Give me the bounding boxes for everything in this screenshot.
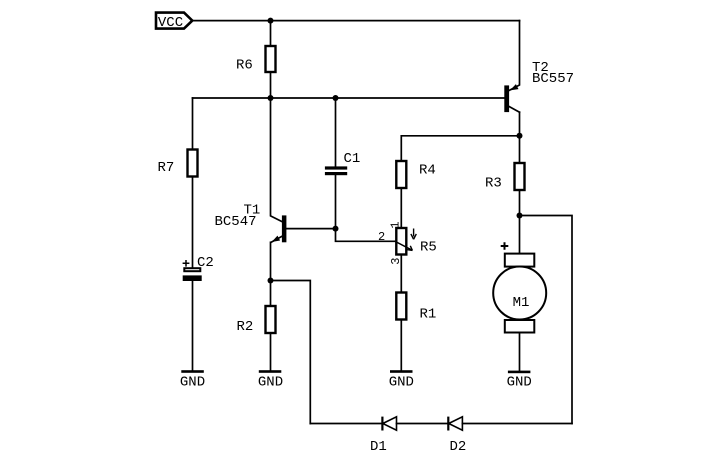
svg-text:VCC: VCC xyxy=(158,15,183,31)
resistor R3 xyxy=(485,163,525,192)
wire T2 collector down xyxy=(519,112,521,136)
wire T1 base xyxy=(287,228,336,230)
wire R3 bottom xyxy=(519,190,521,216)
resistor R4 xyxy=(396,161,436,188)
ground under M1 xyxy=(507,371,532,391)
svg-text:BC557: BC557 xyxy=(532,71,574,87)
svg-text:R7: R7 xyxy=(158,160,175,176)
node junction R3/M1 xyxy=(517,213,523,219)
svg-text:D1: D1 xyxy=(370,439,387,455)
power flag VCC xyxy=(156,13,192,31)
svg-text:R3: R3 xyxy=(485,176,502,192)
wire R2 top xyxy=(270,281,272,307)
svg-text:R1: R1 xyxy=(420,307,437,323)
svg-text:R5: R5 xyxy=(420,240,437,256)
wire R5 to R1 xyxy=(400,255,402,293)
ground under C2 xyxy=(180,370,205,390)
svg-text:GND: GND xyxy=(389,375,414,391)
trimmer R5 xyxy=(378,221,437,264)
capacitor C1 xyxy=(325,151,360,175)
wire R4 to R5 xyxy=(400,188,402,228)
capacitor C2 xyxy=(183,255,214,281)
resistor R6 xyxy=(236,46,276,74)
svg-text:R2: R2 xyxy=(237,319,254,335)
svg-text:C1: C1 xyxy=(344,151,361,167)
resistor R1 xyxy=(396,293,436,323)
wire node to motor xyxy=(519,216,521,254)
resistor R2 xyxy=(237,306,276,335)
wire between diodes xyxy=(397,423,449,425)
wire R2 to ground xyxy=(270,333,272,371)
wire bottom left segment xyxy=(310,423,382,425)
motor M1 xyxy=(493,242,546,332)
svg-text:BC547: BC547 xyxy=(215,214,257,230)
wire bottom right segment xyxy=(462,423,572,425)
ground under R1 xyxy=(389,370,414,390)
svg-text:M1: M1 xyxy=(513,295,530,311)
wire R6 bottom xyxy=(270,72,272,98)
wire T1 emitter down xyxy=(270,242,272,280)
node junction collector/R4 xyxy=(517,133,523,139)
transistor T1 xyxy=(215,203,287,243)
diode D1 xyxy=(370,417,397,455)
ground under R2 xyxy=(258,370,283,390)
svg-text:D2: D2 xyxy=(450,439,467,455)
svg-text:GND: GND xyxy=(507,375,532,391)
wire T1 collector xyxy=(271,98,283,222)
resistor R7 xyxy=(158,150,198,177)
wire emitter node to right xyxy=(271,281,311,424)
wire rail to R7 xyxy=(192,98,194,150)
node junction VCC/R6 xyxy=(268,18,274,24)
svg-text:GND: GND xyxy=(180,375,205,391)
node junction rail/C1 xyxy=(333,95,339,101)
svg-text:2: 2 xyxy=(378,230,385,244)
wire M1 to ground xyxy=(519,333,521,371)
node junction rail/R6 xyxy=(268,95,274,101)
svg-text:GND: GND xyxy=(258,375,283,391)
svg-text:R6: R6 xyxy=(236,58,253,74)
wire base rail xyxy=(193,97,505,99)
wire to R3 xyxy=(519,136,521,163)
node junction base/C1/R5 xyxy=(333,226,339,232)
wire C2 to ground xyxy=(192,281,194,371)
wire node right and down to diodes xyxy=(520,216,573,424)
svg-text:C2: C2 xyxy=(197,255,214,271)
wire R7 to C2 xyxy=(192,177,194,268)
wire node to R5 pin 2 xyxy=(336,229,397,242)
transistor T2 xyxy=(504,60,574,112)
node junction emitter/R2 xyxy=(268,278,274,284)
wire VCC top rail xyxy=(192,20,519,22)
wire C1 bottom xyxy=(335,175,337,228)
wire R1 to ground xyxy=(400,320,402,371)
svg-text:1: 1 xyxy=(388,221,402,228)
wire C1 top xyxy=(335,98,337,167)
wire R4 top / horizontal to T2 collector xyxy=(401,136,519,161)
diode D2 xyxy=(448,417,466,455)
wire R6 top xyxy=(270,21,272,46)
svg-text:R4: R4 xyxy=(419,163,436,179)
wire T2 emitter from top rail xyxy=(509,21,519,91)
